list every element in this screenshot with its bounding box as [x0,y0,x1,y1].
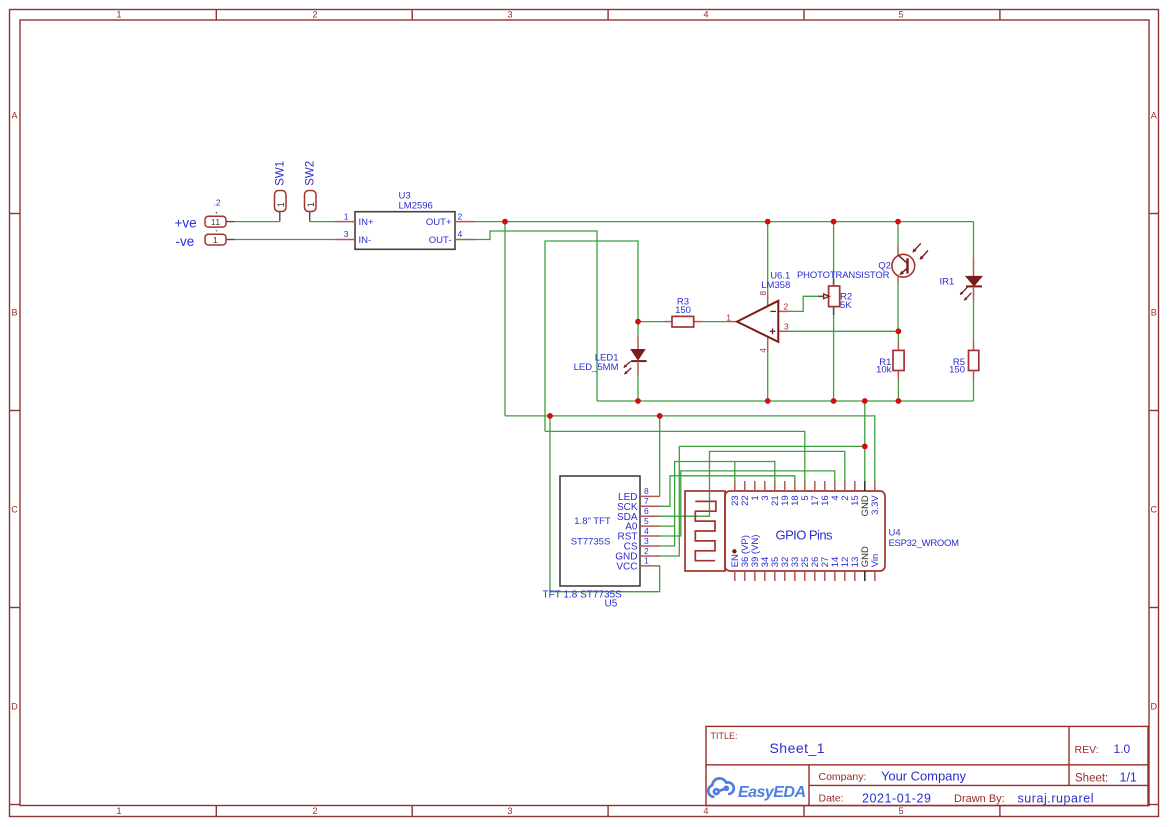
svg-text:OUT-: OUT- [429,235,452,246]
wire R3 node [638,321,664,323]
wire pin3 to junction [788,330,898,332]
junction at 550,415.9 [547,413,553,419]
connector P2 pin stub [226,221,235,223]
resistor R3 stub right [694,321,703,323]
junction at 767.7,401 [765,398,771,404]
svg-text:1: 1 [116,806,121,816]
LED LED1 light arrow 2 [625,368,632,374]
svg-text:1: 1 [726,312,731,322]
resistor R3 body [672,316,694,327]
resistor R1 stub top [897,342,899,350]
bottom ruler tick 1 [215,806,217,817]
MCU U4 bottom pin GND stub [864,571,866,581]
MCU U4 bottom pin Vin stub [874,571,876,581]
op-amp U6.1 plus mark [770,330,776,332]
resistor R5 stub bottom [973,371,975,380]
svg-text:LED_5MM: LED_5MM [574,362,619,373]
wire LED1 top [637,322,639,337]
MCU U4 top pin GND stub [864,481,866,491]
left ruler tick 4 [10,804,21,806]
right ruler tick 2 [1149,410,1159,412]
svg-text:2: 2 [784,302,789,312]
op-amp U6.1 minus mark [770,310,776,312]
junction at 898.4,401 [896,398,902,404]
wire 5V rail [505,416,875,481]
transistor Q2 emitter stub [897,277,899,283]
svg-text:2021-01-29: 2021-01-29 [862,791,931,805]
switch SW1 pin stub [279,212,281,222]
display U5 body [560,476,640,586]
svg-text:IR1: IR1 [940,277,955,288]
MCU U4 top pin 23 stub [734,481,736,491]
junction at 659.7,415.9 [657,413,663,419]
wire R1 bottom [897,379,899,401]
svg-text:2: 2 [644,546,649,556]
potentiometer R2 wiper arrow [824,294,830,299]
title block outer [706,726,1148,805]
svg-text:OUT+: OUT+ [426,217,452,228]
svg-text:4: 4 [758,348,768,353]
LED LED1 triangle [631,350,645,360]
wire CS run [660,462,775,547]
LED IR1 anode stub [973,258,975,276]
svg-text:C: C [11,504,18,514]
wire bridge GPIO5 node [545,241,638,431]
svg-text:1/1: 1/1 [1120,770,1137,784]
svg-text:3: 3 [784,322,789,332]
MCU U4 top pin 21 stub [774,481,776,491]
potentiometer R2 stub top [833,279,835,287]
wire pin23 branch [734,462,736,482]
svg-text:REV:: REV: [1075,744,1099,756]
svg-text:Date:: Date: [819,793,844,805]
display U5 pin 7 stub [640,505,660,507]
svg-text:IN-: IN- [359,235,372,246]
svg-text:150: 150 [949,365,965,376]
wire LED backlight drop [659,416,661,497]
MCU U4 bottom pin 27 stub [824,571,826,581]
svg-text:C: C [1150,504,1157,514]
svg-text:B: B [11,307,17,317]
op-amp U6.1 pin 4 wire [767,352,769,401]
LED LED1 cathode stub [637,361,639,376]
op-amp U6.1 pin 1 stub [728,321,737,323]
bottom ruler tick 4 [803,806,805,817]
left ruler tick 3 [10,607,21,609]
MCU U4 top pin 15 stub [854,481,856,491]
transistor Q2 circle [892,254,915,277]
junction at 864.8,446.4 [862,444,868,450]
left ruler tick 1 [10,213,21,215]
wire R1 top [897,331,899,342]
MCU U4 bottom pin 39 (VN) stub [754,571,756,581]
right ruler tick 3 [1149,607,1159,609]
svg-text:LM2596: LM2596 [399,200,433,211]
regulator U3 body [355,212,455,250]
op-amp U6.1 pin 2 stub [778,310,788,312]
svg-text:SW1: SW1 [275,161,287,186]
svg-text:A: A [11,110,17,120]
svg-text:VCC: VCC [616,562,637,573]
MCU U4 top pin 16 stub [824,481,826,491]
display U5 pin 8 stub [640,495,660,497]
top ruler tick 1 [215,10,217,21]
svg-text:4: 4 [458,229,463,239]
junction at 833.6,221.6 [831,219,837,225]
svg-text:2: 2 [312,806,317,816]
LED IR1 light arrow 1 [960,287,967,294]
svg-text:5: 5 [898,10,903,20]
display U5 pin 6 stub [640,515,660,517]
svg-text:1: 1 [276,202,286,207]
svg-text:ST7735S: ST7735S [571,536,611,547]
wire TFT GND to ground [660,446,865,556]
MCU U4 top pin 17 stub [814,481,816,491]
transistor Q2 collector diag [898,255,907,263]
display U5 pin 5 stub [640,525,660,527]
svg-text:3: 3 [507,806,512,816]
display U5 pin 2 stub [640,555,660,557]
svg-text:LM358: LM358 [761,280,790,291]
MCU U4 bottom pin 12 stub [844,571,846,581]
transistor Q2 base bar [906,258,908,273]
svg-text:5K: 5K [840,300,852,311]
svg-text:3: 3 [507,10,512,20]
U3 pin 4 stub [455,239,475,241]
svg-text:8: 8 [758,291,768,296]
wire IR1 top [973,222,975,259]
MCU U4 top pin 4 stub [834,481,836,491]
MCU U4 top pin 22 stub [744,481,746,491]
left ruler tick 2 [10,410,21,412]
op-amp U6.1 triangle [737,301,778,342]
MCU U4 bottom pin EN stub [734,571,736,581]
MCU U4 top pin 18 stub [794,481,796,491]
svg-text:1: 1 [216,218,221,227]
MCU U4 antenna box [685,491,725,571]
wire R2 bottom [833,315,835,401]
wire Q2 collector [897,222,899,247]
svg-text:EasyEDA: EasyEDA [738,784,806,801]
transistor Q2 emitter diag [900,268,908,275]
wire IR1 to R5 [973,301,975,342]
MCU U4 bottom pin 36 (VP) stub [744,571,746,581]
wire A0 run [660,525,675,527]
U3 pin 3 stub [335,239,355,241]
svg-text:Drawn By:: Drawn By: [954,793,1005,805]
MCU U4 top pin 1 stub [754,481,756,491]
svg-text:Company:: Company: [819,771,867,783]
svg-text:Your Company: Your Company [881,769,967,784]
svg-text:1: 1 [644,556,649,566]
svg-text:1: 1 [213,236,218,245]
MCU U4 pin1 dot [732,549,736,553]
junction at 767.7,221.6 [765,219,771,225]
title block divider logo [808,765,810,806]
svg-text:1: 1 [344,211,349,221]
junction at 833.6,401 [831,398,837,404]
wire +ve to SW1 [235,221,280,223]
right ruler tick 4 [1149,804,1159,806]
LED LED1 cathode bar [631,360,647,362]
connector P1 pin stub [226,239,235,241]
title block line company/date [809,784,1148,786]
svg-text:7: 7 [644,496,649,506]
wire 12V top rail [475,221,974,223]
MCU U4 antenna meander [695,501,716,560]
bottom ruler tick 5 [999,806,1001,817]
potentiometer R2 wiper shaft [818,295,823,297]
svg-text:2: 2 [458,211,463,221]
resistor R1 body [893,350,904,370]
svg-text:6: 6 [644,506,649,516]
title block divider REV [1068,726,1070,785]
connector P1 (-ve) body [205,234,226,245]
wire ground to ESP GND pin [864,401,866,481]
wire op-amp out to R3 [703,321,728,323]
switch SW2 body [305,191,317,212]
wire ground rail [597,400,974,402]
logo EasyEDA cloud [708,778,734,796]
transistor Q2 light arrow 2 [920,251,928,260]
wire OUT+ drop [504,222,506,416]
LED LED1 light arrow 1 [624,361,631,367]
MCU U4 bottom pin 13 stub [854,571,856,581]
wire RST run [660,471,835,536]
resistor R5 stub top [973,342,975,351]
title block line title/company [706,764,1148,766]
LED IR1 triangle [966,276,982,286]
LED IR1 light arrow 2 [964,293,971,300]
svg-text:suraj.ruparel: suraj.ruparel [1018,792,1094,806]
svg-text:+ve: +ve [175,216,197,231]
U3 pin 2 stub [455,221,475,223]
MCU U4 bottom pin 14 stub [834,571,836,581]
connector P1 dot mark [216,230,217,231]
switch SW2 pin stub [309,212,311,222]
svg-text:150: 150 [675,305,691,316]
MCU U4 top pin 3.3V stub [874,481,876,491]
svg-text:U5: U5 [605,599,618,610]
MCU U4 bottom pin 25 stub [804,571,806,581]
display U5 pin 1 stub [640,565,660,567]
transistor Q2 collector stub [897,247,899,255]
wire -ve to U3 IN- [235,239,336,241]
potentiometer R2 body [829,286,840,307]
svg-text:Vin: Vin [870,554,881,568]
svg-text:1: 1 [306,202,316,207]
svg-text:D: D [11,701,18,711]
junction at 898.4,331.3 [896,328,902,334]
wire OUT- run [475,231,597,401]
svg-text:PHOTOTRANSISTOR: PHOTOTRANSISTOR [797,270,890,281]
svg-text:ESP32_WROOM: ESP32_WROOM [889,538,960,549]
LED IR1 cathode stub [973,286,975,300]
svg-text:A: A [1151,110,1157,120]
MCU U4 top pin 2 stub [844,481,846,491]
op-amp U6.1 pin 4 stub [767,337,769,352]
op-amp U6.1 pin 8 wire [767,222,769,294]
svg-text:.2: .2 [214,198,221,208]
MCU U4 top pin 3 stub [764,481,766,491]
bottom ruler tick 3 [607,806,609,817]
potentiometer R2 stub bottom [833,307,835,316]
junction at 505,221.6 [502,219,508,225]
LED IR1 cathode bar [966,285,982,287]
MCU U4 body [725,491,885,571]
junction at 864.8,401 [862,398,868,404]
resistor R5 body [969,350,979,370]
MCU U4 top pin 5 stub [804,481,806,491]
switch SW1 body [275,191,287,212]
top ruler tick 3 [607,10,609,21]
MCU U4 bottom pin 26 stub [814,571,816,581]
svg-text:Sheet_1: Sheet_1 [770,740,825,756]
wire SW2 to U3 IN+ [310,221,335,223]
top ruler tick 4 [803,10,805,21]
wire R5 bottom [973,379,975,401]
U3 pin 1 stub [335,221,355,223]
resistor R3 stub left [664,321,672,323]
svg-text:SW2: SW2 [305,161,317,186]
top ruler tick 2 [411,10,413,21]
right ruler tick 1 [1149,213,1159,215]
wire VCC run [550,416,660,592]
svg-text:U4: U4 [889,527,901,538]
svg-text:5: 5 [898,806,903,816]
wire SDA run [660,451,845,516]
svg-text:3: 3 [344,229,349,239]
svg-text:TITLE:: TITLE: [711,731,738,741]
junction at 638,321.6 [635,319,641,325]
svg-text:1.8" TFT: 1.8" TFT [574,516,611,527]
wire R2 top [833,222,835,279]
MCU U4 bottom pin 33 stub [794,571,796,581]
svg-text:B: B [1151,307,1157,317]
wire GPIO5 line [545,431,805,481]
wire pin2 to R2 wiper [788,296,818,311]
MCU U4 top pin 19 stub [784,481,786,491]
MCU U4 bottom pin 35 stub [774,571,776,581]
junction at 638,401 [635,398,641,404]
MCU U4 bottom pin 32 stub [784,571,786,581]
connector P2 dot mark [216,212,218,214]
svg-text:D: D [1150,701,1157,711]
svg-text:5: 5 [644,516,649,526]
MCU U4 bottom pin 34 stub [764,571,766,581]
svg-text:Sheet:: Sheet: [1075,772,1108,784]
svg-text:8: 8 [644,486,649,496]
transistor Q2 light arrow 1 [913,243,921,252]
op-amp U6.1 pin 8 stub [767,294,769,306]
svg-text:2: 2 [312,10,317,20]
svg-text:IN+: IN+ [359,217,375,228]
svg-text:10k: 10k [876,365,892,376]
svg-text:3: 3 [644,536,649,546]
LED LED1 anode stub [637,336,639,349]
svg-text:1.0: 1.0 [1114,742,1131,756]
svg-text:4: 4 [703,10,708,20]
junction at 898,221.6 [895,219,901,225]
display U5 pin 4 stub [640,535,660,537]
svg-text:-ve: -ve [176,234,195,249]
top ruler tick 5 [999,10,1001,21]
svg-text:4: 4 [703,806,708,816]
wire SCK run [660,476,795,507]
connector P2 (+ve) body [205,216,226,227]
svg-text:3.3V: 3.3V [870,495,881,515]
wire LED1 bottom [637,376,639,401]
op-amp U6.1 pin 3 stub [778,330,788,332]
svg-text:1: 1 [116,10,121,20]
bottom ruler tick 2 [411,806,413,817]
wire Q2 emitter [897,283,899,331]
resistor R1 stub bottom [897,371,899,380]
svg-text:4: 4 [644,526,649,536]
svg-text:GPIO Pins: GPIO Pins [776,528,834,543]
display U5 pin 3 stub [640,545,660,547]
